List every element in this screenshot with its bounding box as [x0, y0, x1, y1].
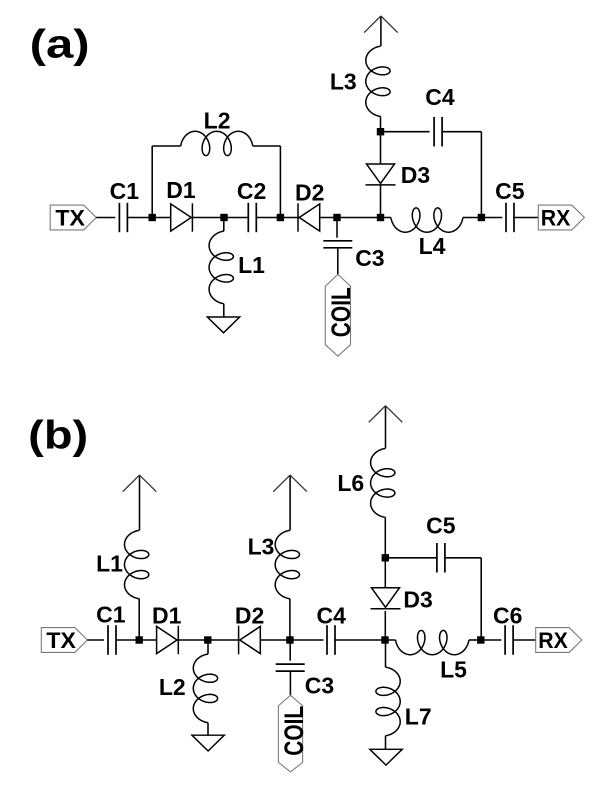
svg-text:(a): (a): [30, 23, 90, 67]
svg-text:L4: L4: [419, 233, 446, 259]
svg-text:COIL: COIL: [326, 287, 356, 337]
svg-text:L2: L2: [159, 674, 186, 700]
svg-text:L2: L2: [204, 107, 231, 133]
svg-text:D3: D3: [401, 162, 430, 188]
svg-text:C4: C4: [425, 84, 455, 110]
svg-text:(b): (b): [28, 413, 88, 457]
svg-text:L7: L7: [405, 704, 432, 730]
svg-text:L5: L5: [440, 657, 467, 683]
svg-text:D1: D1: [166, 177, 196, 203]
svg-text:L3: L3: [330, 69, 357, 95]
svg-text:C3: C3: [355, 245, 384, 271]
svg-text:C3: C3: [305, 673, 334, 699]
svg-text:L1: L1: [238, 252, 265, 278]
svg-text:RX: RX: [541, 205, 571, 230]
svg-text:D2: D2: [295, 180, 324, 206]
svg-text:RX: RX: [538, 628, 568, 653]
svg-text:C4: C4: [316, 603, 346, 629]
svg-text:L6: L6: [337, 470, 364, 496]
svg-text:COIL: COIL: [279, 706, 309, 756]
svg-text:C1: C1: [96, 602, 126, 628]
svg-text:L1: L1: [96, 551, 123, 577]
svg-text:D3: D3: [403, 587, 432, 613]
svg-text:L3: L3: [248, 533, 275, 559]
svg-text:D1: D1: [152, 602, 182, 628]
svg-text:D2: D2: [235, 603, 264, 629]
svg-text:C6: C6: [493, 603, 522, 629]
svg-text:C5: C5: [495, 178, 525, 204]
svg-text:C2: C2: [237, 178, 266, 204]
svg-text:C5: C5: [426, 512, 456, 538]
svg-text:TX: TX: [55, 205, 85, 230]
svg-text:TX: TX: [46, 628, 76, 653]
svg-text:C1: C1: [110, 178, 140, 204]
